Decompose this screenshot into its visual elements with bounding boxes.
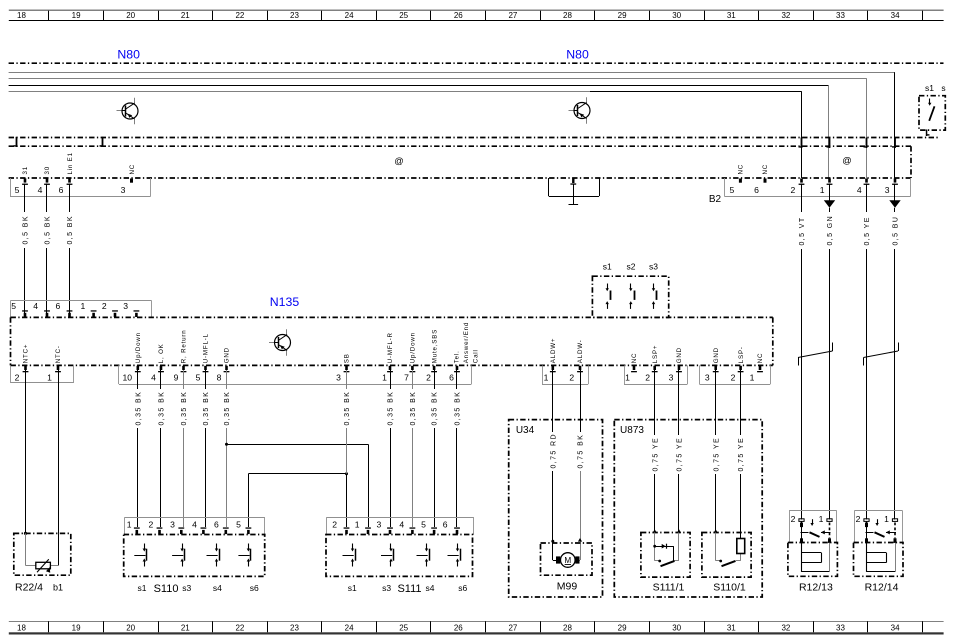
crossover link YE-BU xyxy=(864,343,899,366)
switch s3 in S111 xyxy=(381,544,394,567)
pass-through mark wire BU xyxy=(892,138,896,149)
svg-text:2: 2 xyxy=(791,185,796,195)
svg-text:0,5 GN: 0,5 GN xyxy=(827,215,834,246)
svg-text:3: 3 xyxy=(705,372,710,382)
svg-text:27: 27 xyxy=(508,11,517,20)
pass-through mark wire VT xyxy=(799,138,803,149)
svg-text:R, Return: R, Return xyxy=(181,330,188,364)
svg-text:6: 6 xyxy=(449,372,454,382)
svg-text:25: 25 xyxy=(399,11,408,20)
R12/14 heater grid box xyxy=(854,543,904,577)
wire 0,5 BU B2 pin3 to R12/14 xyxy=(891,184,899,520)
svg-text:s2: s2 xyxy=(627,262,636,272)
svg-text:Up/Down: Up/Down xyxy=(410,332,417,363)
svg-text:0,5 BK: 0,5 BK xyxy=(67,215,74,244)
N135 pin 1 ALDW+ xyxy=(544,338,557,383)
N135 lower connector outline A xyxy=(11,365,74,383)
connector pass-through mark left 1 xyxy=(14,137,18,147)
svg-text:Mute,SBS: Mute,SBS xyxy=(431,329,438,363)
svg-text:U-MFL-R: U-MFL-R xyxy=(387,332,394,363)
antenna B2 xyxy=(549,178,600,205)
switch s1 in box xyxy=(606,284,611,309)
svg-text:29: 29 xyxy=(618,11,627,20)
svg-text:2: 2 xyxy=(149,520,154,530)
wire 0,5 BK pin6 to N135 xyxy=(66,184,74,314)
wire 0,35 BK N135 pin1 to S111 pin3 xyxy=(386,370,394,527)
wire 0,5 VT B2 pin2 to R12/13 xyxy=(798,184,806,520)
svg-text:3: 3 xyxy=(336,372,341,382)
wire 0,35 BK N135 pin7 to S111 pin4 xyxy=(409,370,417,527)
svg-text:3: 3 xyxy=(669,372,674,382)
svg-text:5: 5 xyxy=(421,520,426,530)
svg-text:2: 2 xyxy=(731,372,736,382)
R12/13 heater grid box xyxy=(788,543,838,577)
svg-text:31: 31 xyxy=(22,166,29,174)
wire 0,75 RD N135 to M99 xyxy=(549,370,557,541)
N135 lower connector outline E xyxy=(699,365,770,384)
R12/14 pin 1 xyxy=(884,514,897,524)
svg-text:0,5 BU: 0,5 BU xyxy=(893,216,900,246)
wire 0,5 GN B2 pin1 to R12/13 xyxy=(826,184,834,520)
svg-text:S110: S110 xyxy=(154,583,179,595)
svg-text:0,75 YE: 0,75 YE xyxy=(713,437,720,472)
svg-text:@: @ xyxy=(842,155,851,165)
junction GND wire xyxy=(225,443,228,446)
svg-text:22: 22 xyxy=(235,624,244,633)
svg-text:s3: s3 xyxy=(382,583,391,593)
svg-text:s1: s1 xyxy=(348,583,357,593)
svg-text:32: 32 xyxy=(781,11,790,20)
svg-text:5: 5 xyxy=(11,301,16,311)
N135 top pin 1 xyxy=(81,301,97,317)
wire 0,5 BK pin4 to N135 xyxy=(43,184,51,314)
connector B2 pin 1 xyxy=(820,178,833,194)
component box U873 xyxy=(614,420,762,597)
svg-text:Answer/End: Answer/End xyxy=(463,322,470,363)
svg-text:R12/13: R12/13 xyxy=(799,582,833,594)
svg-text:27: 27 xyxy=(508,624,517,633)
svg-text:1: 1 xyxy=(81,301,86,311)
svg-text:33: 33 xyxy=(836,624,845,633)
svg-text:ALDW+: ALDW+ xyxy=(550,338,557,364)
svg-text:22: 22 xyxy=(235,11,244,20)
svg-text:0,5 BK: 0,5 BK xyxy=(23,215,30,244)
shield symbol at B2 pin 3 xyxy=(889,200,900,208)
svg-text:ALDW-: ALDW- xyxy=(577,339,584,363)
svg-text:4: 4 xyxy=(151,372,156,382)
svg-text:S111: S111 xyxy=(397,583,421,595)
svg-text:NTC-: NTC- xyxy=(55,345,62,363)
svg-text:9: 9 xyxy=(174,372,179,382)
S111 pin 6 xyxy=(443,520,460,535)
svg-text:4: 4 xyxy=(33,301,38,311)
svg-text:0,35 BK: 0,35 BK xyxy=(455,391,462,426)
wire NTC+ N135 pin2 to R22/4 xyxy=(25,370,27,533)
connector pin 3 NC xyxy=(121,164,136,195)
svg-text:S110/1: S110/1 xyxy=(713,582,746,594)
svg-text:b1: b1 xyxy=(53,583,63,593)
N135 pin 9 R, Return xyxy=(174,330,188,383)
switch S111/1 contacts xyxy=(653,533,679,567)
svg-text:s1: s1 xyxy=(138,583,147,593)
connector B2 pin 4 xyxy=(857,178,869,194)
svg-text:0,35 BK: 0,35 BK xyxy=(203,391,210,426)
svg-text:SB: SB xyxy=(344,353,351,363)
wire 0,35 BK N135 pin10 to S110 pin1 xyxy=(134,370,142,527)
harness boundary line xyxy=(9,145,911,147)
N135 pin 1 NC right xyxy=(750,353,765,383)
N135 top pin 3 xyxy=(123,301,139,317)
wire GND link to S111 pin1 xyxy=(227,444,369,527)
svg-text:1: 1 xyxy=(750,372,755,382)
svg-text:s3: s3 xyxy=(649,262,658,272)
S111 pin 5 xyxy=(421,520,437,535)
switch group S111 connector outline xyxy=(327,517,474,534)
label s1 S110 xyxy=(138,583,260,595)
svg-text:2: 2 xyxy=(332,520,337,530)
svg-text:2: 2 xyxy=(856,514,861,524)
switch group S111 box xyxy=(326,535,473,577)
connector pin 6 terminal Lin E1 xyxy=(59,152,74,195)
wire 0,75 YE N135 to S110/1 left xyxy=(712,370,720,533)
svg-text:3: 3 xyxy=(170,520,175,530)
wire 0,75 YE N135 to S111/1 left xyxy=(651,370,659,533)
resistor in S110/1 xyxy=(737,539,745,554)
svg-text:Call: Call xyxy=(473,349,480,363)
svg-text:1: 1 xyxy=(127,520,132,530)
svg-text:U34: U34 xyxy=(516,425,535,436)
svg-text:2: 2 xyxy=(102,301,107,311)
component box U34 xyxy=(509,420,603,597)
N135 lower connector outline D xyxy=(624,365,688,384)
svg-text:NC: NC xyxy=(738,164,745,175)
svg-text:GND: GND xyxy=(676,347,683,363)
svg-text:NC: NC xyxy=(757,353,764,364)
wire 0,35 BK SB N135 pin3 to S111 pin2 xyxy=(343,370,351,527)
svg-text:R22/4: R22/4 xyxy=(15,582,43,594)
control unit N80 top boundary xyxy=(9,62,944,64)
svg-text:0,35 BK: 0,35 BK xyxy=(344,391,351,426)
N135 pin 2 NTC+ xyxy=(15,344,30,383)
top ruler grid xyxy=(9,10,944,21)
N135 top pin 5 xyxy=(11,301,28,317)
svg-text:5: 5 xyxy=(15,185,20,195)
svg-text:4: 4 xyxy=(857,185,862,195)
svg-text:31: 31 xyxy=(727,11,736,20)
connector pin 4 terminal 30 xyxy=(38,166,52,195)
switch S110/1 box xyxy=(702,533,751,578)
N135 upper connector outline xyxy=(11,301,152,318)
pass-through mark wire GN xyxy=(827,138,831,149)
R12/13 changeover switch xyxy=(800,519,831,543)
svg-text:18: 18 xyxy=(17,624,26,633)
svg-text:0,75 YE: 0,75 YE xyxy=(652,437,659,472)
svg-text:23: 23 xyxy=(290,624,299,633)
svg-text:Up/Down: Up/Down xyxy=(135,332,142,363)
S111 pin 4 xyxy=(399,520,415,535)
svg-text:6: 6 xyxy=(59,185,64,195)
svg-text:Tel.: Tel. xyxy=(453,350,460,363)
svg-text:29: 29 xyxy=(618,624,627,633)
N135 pin 1 NC xyxy=(625,353,638,383)
N135 pin 10 Up/Down xyxy=(123,332,142,382)
thermistor R22/4 element xyxy=(26,533,59,572)
svg-text:s1: s1 xyxy=(925,83,934,93)
svg-text:0,35 BK: 0,35 BK xyxy=(224,391,231,426)
S111 pin 1 xyxy=(355,520,371,535)
N135 pin 2 LSP- xyxy=(731,346,745,382)
svg-text:30: 30 xyxy=(672,624,681,633)
S110 pin 4 xyxy=(192,520,206,535)
svg-text:1: 1 xyxy=(544,372,549,382)
svg-text:GND: GND xyxy=(713,347,720,363)
svg-text:s4: s4 xyxy=(426,583,435,593)
svg-text:S111/1: S111/1 xyxy=(653,582,685,594)
svg-text:30: 30 xyxy=(44,166,51,174)
svg-text:M: M xyxy=(564,556,571,565)
S110 pin 2 xyxy=(149,520,163,535)
svg-text:N80: N80 xyxy=(117,48,140,62)
control unit N80 bottom boundary xyxy=(9,137,938,139)
switch group S110 connector outline xyxy=(125,517,265,534)
arrow mark S111/1 right wire xyxy=(677,529,681,533)
svg-text:6: 6 xyxy=(56,301,61,311)
junction dot R22/4 left wire xyxy=(24,532,27,535)
connector B2 outline xyxy=(725,178,911,197)
label s1 S111 xyxy=(348,583,468,595)
connector B2 pin 3 xyxy=(885,178,898,194)
wire S110 pin5 to SB link xyxy=(248,474,346,528)
wire 0,75 YE N135 to S110/1 right xyxy=(737,370,745,539)
svg-text:s4: s4 xyxy=(213,583,222,593)
svg-text:1: 1 xyxy=(355,520,360,530)
shield symbol at B2 pin 1 xyxy=(824,200,835,208)
svg-text:1: 1 xyxy=(884,514,889,524)
svg-text:s1: s1 xyxy=(603,262,612,272)
svg-text:26: 26 xyxy=(454,624,463,633)
connector pass-through mark left 2 xyxy=(100,137,104,147)
svg-text:LSP-: LSP- xyxy=(738,346,745,363)
wire bus line 2 (to B2 pin 4) xyxy=(9,78,867,178)
switch S110/1 contacts xyxy=(716,533,741,567)
crossover link VT-GN xyxy=(798,343,833,366)
svg-text:Lin E1: Lin E1 xyxy=(67,152,74,174)
R12/13 pin 2 xyxy=(791,514,804,524)
wire bus line 1 (to B2 pin 3) xyxy=(9,72,895,178)
N135 lower connector outline B xyxy=(119,365,472,384)
N135 pin 6 Tel. Answer/End Call xyxy=(449,322,479,382)
wire 0,35 BK GND N135 pin8 to S110 pin6 xyxy=(223,370,231,527)
svg-text:34: 34 xyxy=(891,11,900,20)
junction dot M99 left wire xyxy=(551,540,554,543)
wire 0,5 YE B2 pin4 to R12/14 xyxy=(863,184,871,520)
R12/13 pin 1 xyxy=(819,514,832,524)
N135 pin 2 LSP+ xyxy=(645,345,659,383)
svg-text:4: 4 xyxy=(38,185,43,195)
svg-text:20: 20 xyxy=(126,624,135,633)
S110 pin 6 xyxy=(214,520,229,535)
svg-text:0,35 BK: 0,35 BK xyxy=(388,391,395,426)
svg-text:31: 31 xyxy=(727,624,736,633)
svg-text:1: 1 xyxy=(382,372,387,382)
svg-text:1: 1 xyxy=(820,185,825,195)
svg-text:24: 24 xyxy=(345,624,354,633)
switch s6 in S111 xyxy=(448,544,461,567)
svg-text:s6: s6 xyxy=(458,583,467,593)
N135 pin 1 NTC- xyxy=(47,345,62,382)
svg-text:8: 8 xyxy=(217,372,222,382)
svg-text:6: 6 xyxy=(443,520,448,530)
svg-text:19: 19 xyxy=(72,11,81,20)
wire NTC- N135 pin1 to R22/4 xyxy=(58,370,60,533)
N135 top pin 6 xyxy=(56,301,73,317)
switch s1 in S111 xyxy=(343,544,356,567)
connector B2 pin 6 NC xyxy=(754,164,769,195)
N135 top pin 2 xyxy=(102,301,118,317)
S110 pin 1 xyxy=(127,520,140,535)
svg-text:3: 3 xyxy=(377,520,382,530)
N135 pin 5 U-MFL-L xyxy=(196,333,210,382)
svg-text:0,5 YE: 0,5 YE xyxy=(864,216,871,245)
svg-text:B2: B2 xyxy=(709,194,722,205)
switch s1 in S110 xyxy=(134,544,146,567)
switch s6 in S110 xyxy=(238,544,250,567)
arrow mark S110/1 left wire xyxy=(714,529,718,533)
N135 lower connector outline C xyxy=(542,365,589,384)
N135 pin 8 GND xyxy=(217,347,231,382)
svg-text:0,5 VT: 0,5 VT xyxy=(799,216,806,245)
wire 0,5 BK pin5 to N135 xyxy=(21,184,29,314)
svg-text:LSP+: LSP+ xyxy=(652,345,659,364)
N135 pin 2 Mute,SBS xyxy=(426,329,438,382)
bottom ruler grid xyxy=(9,621,944,634)
svg-text:4: 4 xyxy=(399,520,404,530)
switch s4 in S110 xyxy=(207,544,220,567)
svg-text:28: 28 xyxy=(563,624,572,633)
wire 0,35 BK N135 pin6 to S111 pin6 xyxy=(453,370,461,527)
svg-text:s6: s6 xyxy=(250,583,259,593)
svg-text:30: 30 xyxy=(672,11,681,20)
wire 0,35 BK N135 pin2 to S111 pin5 xyxy=(430,370,438,527)
switch s3 in box xyxy=(652,284,657,309)
svg-text:2: 2 xyxy=(15,372,20,382)
antenna module R12/14 connector outline xyxy=(855,510,903,542)
switch s4 in S111 xyxy=(417,544,430,567)
pass-through mark wire YE xyxy=(864,138,868,149)
svg-text:0,5 BK: 0,5 BK xyxy=(45,215,52,244)
connector pin 5 terminal 31 xyxy=(15,166,30,195)
switch S111/1 box xyxy=(641,533,690,578)
svg-text:NTC+: NTC+ xyxy=(23,344,30,364)
svg-text:0,75 YE: 0,75 YE xyxy=(738,437,745,472)
R12/14 pin 2 xyxy=(856,514,869,524)
svg-text:1: 1 xyxy=(625,372,630,382)
svg-text:24: 24 xyxy=(345,11,354,20)
svg-text:s: s xyxy=(941,83,945,93)
S111 pin 2 xyxy=(332,520,349,535)
svg-text:N80: N80 xyxy=(566,48,589,62)
svg-text:0,35 BK: 0,35 BK xyxy=(410,391,417,426)
wire 0,75 YE N135 to S111/1 right xyxy=(675,370,683,533)
svg-text:NC: NC xyxy=(631,353,638,364)
svg-text:20: 20 xyxy=(126,11,135,20)
svg-text:19: 19 xyxy=(72,624,81,633)
transistor symbol in N80 left xyxy=(117,98,139,124)
svg-text:N135: N135 xyxy=(270,295,300,309)
connector B2 pin 5 NC xyxy=(730,164,745,195)
svg-text:0,75 BK: 0,75 BK xyxy=(578,434,585,469)
antenna module R12/13 connector outline xyxy=(789,510,836,542)
svg-text:5: 5 xyxy=(730,185,735,195)
switch s3 in S110 xyxy=(172,544,184,567)
N135 pin 3 SB xyxy=(336,353,351,382)
svg-text:5: 5 xyxy=(196,372,201,382)
svg-text:0,35 BK: 0,35 BK xyxy=(135,391,142,426)
sensor R22/4 b1 box xyxy=(14,533,71,575)
svg-text:0,35 BK: 0,35 BK xyxy=(181,391,188,426)
wire 0,75 BK N135 to M99 xyxy=(576,370,584,560)
N135 pin 3 GND xyxy=(669,347,684,382)
harness boundary right edge xyxy=(910,146,912,178)
svg-text:23: 23 xyxy=(290,11,299,20)
svg-text:U873: U873 xyxy=(620,425,644,436)
R12/13 antenna grid element xyxy=(802,543,830,572)
svg-text:NC: NC xyxy=(129,164,136,175)
svg-text:7: 7 xyxy=(404,372,409,382)
R12/14 antenna grid element xyxy=(867,543,896,572)
svg-text:2: 2 xyxy=(645,372,650,382)
wire bus line 3 (to B2 pin 1) xyxy=(9,85,829,178)
svg-text:3: 3 xyxy=(121,185,126,195)
svg-text:25: 25 xyxy=(399,624,408,633)
svg-text:R12/14: R12/14 xyxy=(865,582,899,594)
N135 pin 7 Up/Down xyxy=(404,332,416,382)
component row bottom boundary xyxy=(9,177,911,179)
svg-text:3: 3 xyxy=(123,301,128,311)
S111 pin 3 xyxy=(377,520,393,535)
S110 pin 5 xyxy=(236,520,251,535)
svg-text:1: 1 xyxy=(47,372,52,382)
svg-text:0,35 BK: 0,35 BK xyxy=(159,391,166,426)
wire 0,35 BK N135 pin4 to S110 pin2 xyxy=(157,370,165,527)
svg-text:L, OK: L, OK xyxy=(158,343,165,363)
svg-text:32: 32 xyxy=(781,624,790,633)
junction SB wire xyxy=(345,472,348,475)
wire 0,35 BK N135 pin9 to S110 pin3 xyxy=(180,370,188,527)
svg-text:GND: GND xyxy=(224,347,231,363)
wire 0,35 BK N135 pin5 to S110 pin4 xyxy=(202,370,210,527)
switch box s1 s2 s3 above N135 xyxy=(592,262,668,318)
wire bus line 4 (to B2 pin 2) xyxy=(9,91,802,178)
switch group S110 box xyxy=(124,535,265,577)
svg-text:@: @ xyxy=(394,156,403,166)
svg-text:NC: NC xyxy=(762,164,769,175)
svg-text:18: 18 xyxy=(17,11,26,20)
svg-text:U-MFL-L: U-MFL-L xyxy=(203,333,210,363)
N135 pin 3 GND right xyxy=(705,347,720,382)
svg-text:2: 2 xyxy=(426,372,431,382)
svg-text:10: 10 xyxy=(123,372,133,382)
svg-text:s3: s3 xyxy=(182,583,191,593)
svg-text:4: 4 xyxy=(192,520,197,530)
control unit N135 boundary box xyxy=(11,317,773,365)
motor M99 xyxy=(553,541,581,567)
svg-text:2: 2 xyxy=(569,372,574,382)
svg-text:28: 28 xyxy=(563,11,572,20)
N135 pin 2 ALDW- xyxy=(569,339,584,382)
svg-text:21: 21 xyxy=(181,11,190,20)
N135 pin 1 U-MFL-R xyxy=(382,332,394,382)
